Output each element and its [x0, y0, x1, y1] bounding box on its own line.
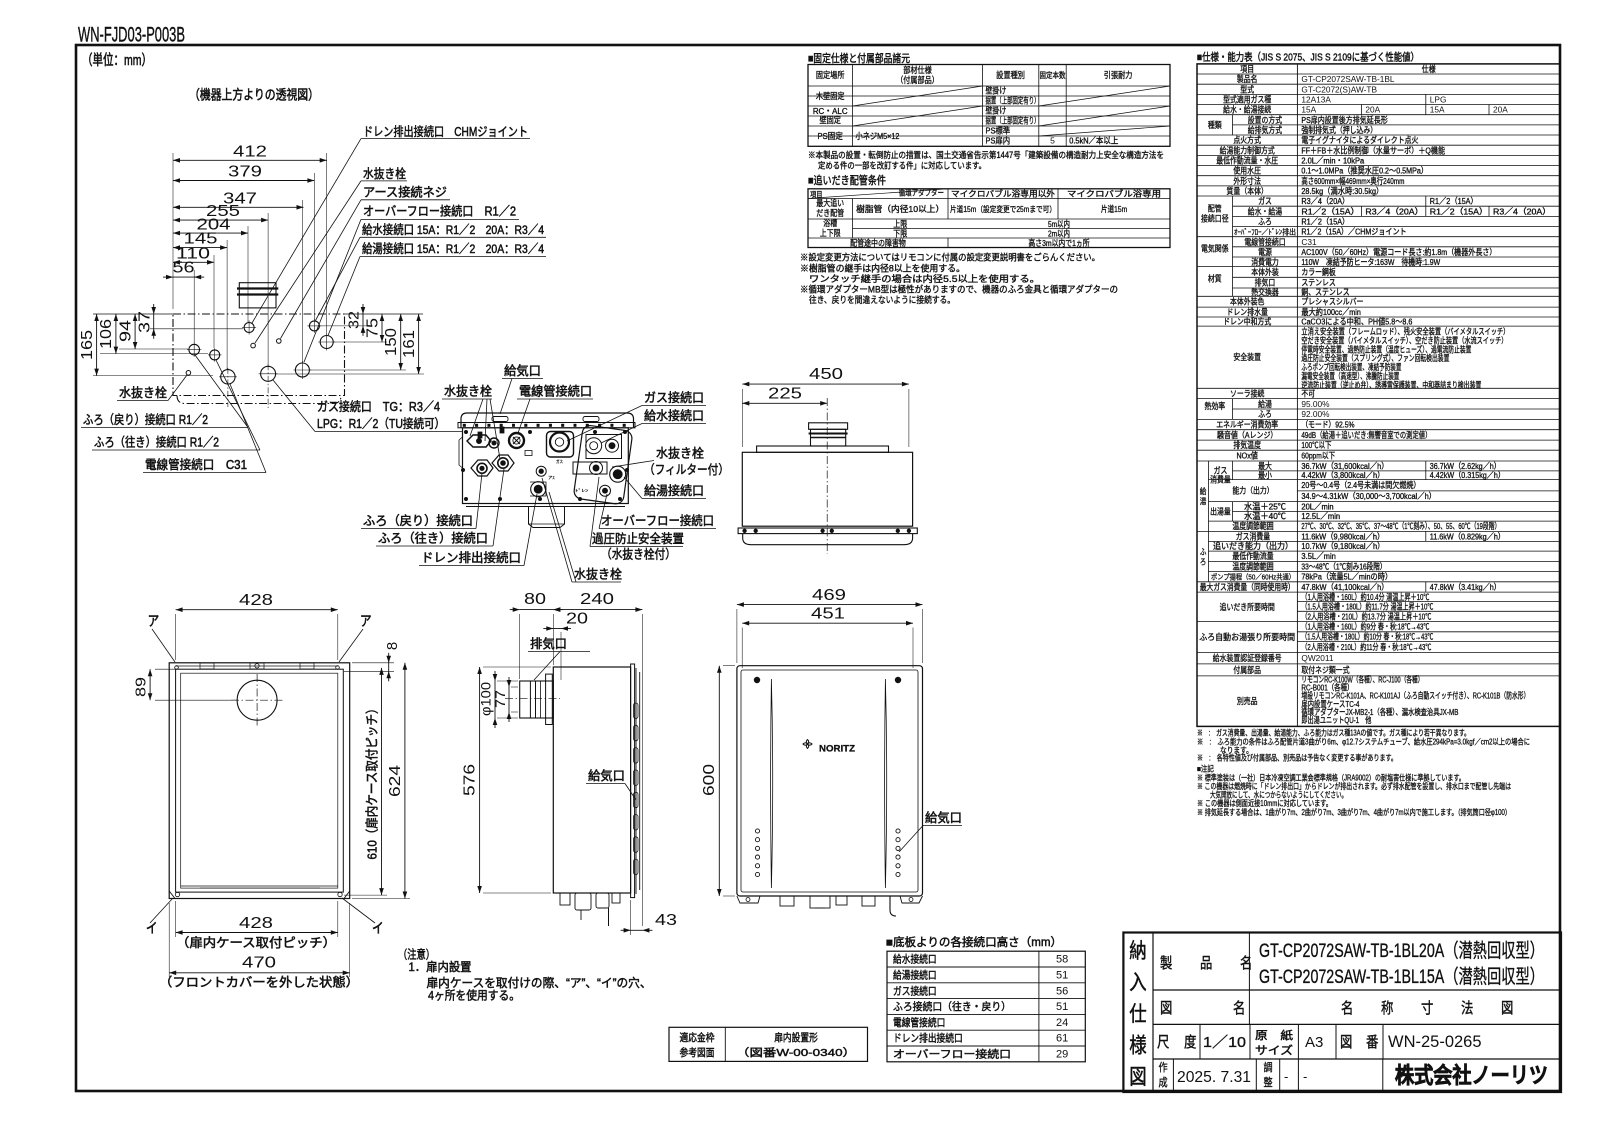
svg-text:11.6kW（9,980kcal／h）: 11.6kW（9,980kcal／h） [1301, 531, 1384, 541]
svg-text:ろ: ろ [1200, 558, 1207, 567]
svg-text:高さ3m以内で1ヵ所: 高さ3m以内で1ヵ所 [1028, 238, 1090, 248]
svg-text:項目: 項目 [1240, 64, 1254, 74]
detail component: left valve pair (furo) [471, 460, 493, 476]
svg-text:納: 納 [1129, 940, 1146, 963]
svg-text:470: 470 [242, 955, 276, 972]
svg-text:428: 428 [239, 915, 273, 932]
svg-text:強制排気式（押し込み）: 強制排気式（押し込み） [1301, 125, 1377, 135]
svg-text:カラー鋼板: カラー鋼板 [1301, 267, 1336, 277]
450 view body [742, 452, 912, 526]
svg-text:循環アダプター: 循環アダプター [899, 188, 944, 198]
svg-text:428: 428 [239, 592, 273, 609]
svg-text:94: 94 [118, 320, 135, 342]
svg-text:消費電力: 消費電力 [1251, 257, 1279, 267]
450 view band screws [743, 529, 747, 533]
svg-text:ふろ（往き）接続口 R1／2: ふろ（往き）接続口 R1／2 [94, 435, 219, 450]
svg-text:※ この機器は側面近接10mmに対応しています。: ※ この機器は側面近接10mmに対応しています。 [1197, 798, 1332, 808]
svg-text:使用水圧: 使用水圧 [1233, 166, 1261, 176]
svg-text:図: 図 [1501, 1000, 1513, 1017]
svg-text:称: 称 [1381, 1000, 1393, 1017]
svg-text:だき配管: だき配管 [816, 208, 844, 218]
svg-text:接続口径: 接続口径 [1201, 213, 1229, 223]
svg-text:15A: 15A [1430, 105, 1445, 115]
svg-text:R1／2（15A）／CHMジョイント: R1／2（15A）／CHMジョイント [1301, 227, 1406, 237]
svg-text:アｽ: アｽ [548, 475, 555, 480]
svg-text:電気関係: 電気関係 [1201, 244, 1229, 254]
svg-text:取付ネジ類一式: 取付ネジ類一式 [1301, 665, 1350, 675]
svg-text:12A13A: 12A13A [1301, 95, 1331, 105]
side view bottom fittings [560, 893, 570, 905]
svg-text:給: 給 [1200, 486, 1207, 496]
svg-text:往き、戻りを間違えないように接続する。: 往き、戻りを間違えないように接続する。 [809, 294, 955, 305]
svg-text:GT-C2072(S)AW-TB: GT-C2072(S)AW-TB [1301, 84, 1377, 94]
svg-text:（1人用浴槽・160L）約9分 春・秋:18℃→43℃: （1人用浴槽・160L）約9分 春・秋:18℃→43℃ [1301, 622, 1429, 632]
svg-text:ガス接続口: ガス接続口 [893, 984, 937, 997]
detail view bottom flange [463, 503, 629, 505]
svg-text:AC100V（50／60Hz）電源コード長さ:約1.8m（機: AC100V（50／60Hz）電源コード長さ:約1.8m（機器外長さ） [1301, 247, 1496, 257]
svg-text:配管途中の障害物: 配管途中の障害物 [850, 238, 906, 248]
oidaki header diagonal [808, 189, 948, 199]
svg-text:（モード）92.5%: （モード）92.5% [1301, 420, 1355, 430]
svg-text:ふ: ふ [1200, 548, 1207, 557]
detail component: filter drain plug [573, 462, 607, 474]
svg-text:（フィルター付）: （フィルター付） [644, 463, 729, 477]
svg-text:WN-FJD03-P003B: WN-FJD03-P003B [78, 24, 185, 47]
svg-text:株式会社ノーリツ: 株式会社ノーリツ [1395, 1063, 1548, 1088]
svg-text:騒音値（Aレンジ）: 騒音値（Aレンジ） [1217, 430, 1277, 440]
dim 56 [173, 276, 194, 278]
dim 347 [173, 206, 304, 208]
svg-text:電子イグナイタによるダイレクト点火: 電子イグナイタによるダイレクト点火 [1301, 135, 1418, 145]
svg-text:24: 24 [1056, 1017, 1068, 1029]
svg-text:2.0L／min・10kPa: 2.0L／min・10kPa [1301, 155, 1364, 165]
dim 204 [173, 232, 248, 234]
svg-text:ガス: ガス [556, 458, 563, 465]
top dim extension verticals [326, 153, 328, 336]
svg-text:11.6kW（0.829kg／h）: 11.6kW（0.829kg／h） [1430, 531, 1505, 541]
svg-text:-: - [1284, 1069, 1288, 1084]
svg-text:43: 43 [655, 912, 677, 929]
svg-text:電源: 電源 [1258, 247, 1272, 257]
svg-text:給湯接続口 15A：R1／2 20A：R3／4: 給湯接続口 15A：R1／2 20A：R3／4 [362, 241, 544, 256]
case inner rect [176, 669, 344, 892]
svg-text:225: 225 [768, 386, 802, 403]
svg-text:20号～0.4号（2.4号未満は間欠燃焼）: 20号～0.4号（2.4号未満は間欠燃焼） [1301, 480, 1420, 490]
svg-text:給気口: 給気口 [925, 810, 962, 825]
svg-text:仕様: 仕様 [1422, 64, 1436, 74]
case bottom inner lines [181, 885, 338, 887]
svg-text:624: 624 [387, 765, 404, 797]
svg-text:木壁固定: 木壁固定 [816, 90, 845, 101]
svg-text:寸: 寸 [1421, 1000, 1433, 1017]
svg-text:469: 469 [812, 587, 846, 604]
dim 470 bottom [169, 972, 350, 974]
svg-text:配管: 配管 [1208, 203, 1222, 213]
svg-text:本体外装色: 本体外装色 [1230, 297, 1264, 307]
svg-text:片道15m（設定変更で25mまで可）: 片道15m（設定変更で25mまで可） [950, 204, 1056, 214]
case outer rect [169, 663, 350, 899]
side view pipe center line [505, 697, 560, 699]
svg-text:100℃以下: 100℃以下 [1301, 440, 1331, 450]
svg-text:ふろ（戻り）接続口 R1／2: ふろ（戻り）接続口 R1／2 [83, 412, 208, 427]
svg-text:調: 調 [1263, 1060, 1272, 1074]
svg-text:NORITZ: NORITZ [819, 744, 855, 755]
svg-text:47.8kW（41,100kcal／h）: 47.8kW（41,100kcal／h） [1301, 582, 1388, 592]
svg-text:据置（上部固定有り）: 据置（上部固定有り） [986, 116, 1040, 126]
svg-text:度: 度 [1184, 1034, 1196, 1051]
top view circle: hot water (412/75) [320, 336, 333, 349]
top view circle: conduit C31 (145) [221, 370, 235, 384]
svg-text:■固定仕様と付属部品諸元: ■固定仕様と付属部品諸元 [808, 51, 910, 65]
svg-text:ドレン排水量: ドレン排水量 [1227, 307, 1268, 317]
svg-text:ドレン排出接続口: ドレン排出接続口 [421, 550, 521, 565]
top view left extension line [93, 313, 173, 315]
svg-text:451: 451 [811, 606, 845, 623]
svg-text:ﾄﾞﾚﾝ: ﾄﾞﾚﾝ [575, 488, 588, 493]
top view small drain plug left [186, 371, 191, 376]
dim 379 [173, 180, 314, 182]
detail component: gas connection square [547, 432, 574, 458]
detail component: upper small drain fittings [467, 435, 491, 447]
detail component: water supply group [586, 435, 622, 459]
svg-text:最低作動流量: 最低作動流量 [1232, 551, 1273, 561]
svg-text:5: 5 [1050, 136, 1055, 146]
svg-text:610（扉内ケース取付ピッチ）: 610（扉内ケース取付ピッチ） [365, 703, 380, 860]
svg-text:水抜き栓: 水抜き栓 [363, 166, 406, 181]
svg-text:アース接続ネジ: アース接続ネジ [363, 185, 447, 200]
product name cell [1248, 933, 1250, 1025]
svg-text:1．扉内設置: 1．扉内設置 [409, 959, 472, 974]
dim phi100 [494, 681, 496, 718]
svg-text:給湯: 給湯 [1258, 399, 1272, 409]
svg-text:（1.5人用浴槽・180L）約10分 春・秋:18℃→43℃: （1.5人用浴槽・180L）約10分 春・秋:18℃→43℃ [1301, 632, 1433, 642]
svg-text:最小: 最小 [1258, 470, 1272, 480]
svg-text:小ネジM5×12: 小ネジM5×12 [856, 131, 900, 141]
svg-text:浴槽: 浴槽 [823, 218, 837, 228]
detail view lid band [458, 423, 635, 428]
svg-text:水抜き栓: 水抜き栓 [444, 384, 492, 399]
detail component: conduit connector [509, 433, 524, 448]
svg-text:壁固定: 壁固定 [820, 114, 842, 125]
svg-text:（フロントカバーを外した状態）: （フロントカバーを外した状態） [159, 975, 359, 990]
svg-text:水温＋25℃: 水温＋25℃ [1244, 502, 1286, 512]
svg-text:追いだき能力（出力）: 追いだき能力（出力） [1213, 541, 1293, 551]
front view left hole column [755, 829, 759, 833]
svg-text:60ppm以下: 60ppm以下 [1301, 451, 1335, 461]
svg-text:GT-CP2072SAW-TB-1BL: GT-CP2072SAW-TB-1BL [1301, 74, 1395, 84]
svg-text:消費量: 消費量 [1210, 474, 1231, 484]
svg-text:LPG：R1／2（TU接続可）: LPG：R1／2（TU接続可） [317, 416, 445, 431]
svg-text:エネルギー消費効率: エネルギー消費効率 [1216, 420, 1278, 430]
side view pipe flange [546, 674, 553, 724]
svg-text:51: 51 [1056, 1001, 1068, 1013]
svg-text:0.1～1.0MPa（推奨水圧0.2～0.5MPa）: 0.1～1.0MPa（推奨水圧0.2～0.5MPa） [1301, 166, 1428, 176]
front view right hole column [896, 829, 900, 833]
svg-text:C31: C31 [1301, 237, 1317, 247]
dim 110 [173, 261, 214, 263]
svg-text:3.5L／min: 3.5L／min [1301, 551, 1336, 561]
front view right panel slit [885, 679, 887, 888]
svg-text:379: 379 [228, 164, 262, 181]
svg-text:※本製品の設置・転倒防止の措置は、国土交通省告示第1447号: ※本製品の設置・転倒防止の措置は、国土交通省告示第1447号「建築設備の構造耐力… [808, 149, 1164, 160]
svg-text:製: 製 [1160, 955, 1172, 972]
svg-text:R3／4（20A）: R3／4（20A） [1301, 196, 1349, 206]
case top tabs [176, 665, 338, 667]
svg-text:R1／2（15A）: R1／2（15A） [1430, 206, 1488, 216]
svg-text:給水接続口: 給水接続口 [644, 408, 704, 423]
svg-text:※ 排気延長する場合は、1曲がり7m、2曲がり7m、3曲がり: ※ 排気延長する場合は、1曲がり7m、2曲がり7m、3曲がり7m、4曲がり7m以… [1197, 807, 1511, 817]
side view body [553, 667, 630, 893]
dim 428 top [176, 609, 338, 611]
svg-text:R3／4（20A）: R3／4（20A） [1365, 206, 1423, 216]
svg-text:※設定変更方法についてはリモコンに付属の設定変更説明書をごら: ※設定変更方法についてはリモコンに付属の設定変更説明書をごらんください。 [800, 252, 1100, 263]
svg-text:※循環アダプターMB型は極性がありますので、機器のふろ金具と: ※循環アダプターMB型は極性がありますので、機器のふろ金具と循環アダプターの [800, 284, 1118, 295]
svg-text:高さ600mm×幅469mm×奥行240mm: 高さ600mm×幅469mm×奥行240mm [1301, 176, 1404, 186]
svg-text:整: 整 [1263, 1075, 1272, 1089]
svg-text:600: 600 [701, 764, 718, 796]
svg-text:水抜き栓: 水抜き栓 [119, 385, 167, 400]
svg-text:即出湯ユニットQU-1 他: 即出湯ユニットQU-1 他 [1301, 715, 1371, 725]
svg-text:R3／4（20A）: R3／4（20A） [1493, 206, 1551, 216]
svg-text:樹脂管（内径10以上）: 樹脂管（内径10以上） [856, 204, 944, 214]
svg-text:φ100: φ100 [479, 682, 494, 716]
top view circle: overflow (347/150) [295, 363, 309, 377]
svg-text:上下限: 上下限 [820, 228, 841, 238]
svg-text:92.00%: 92.00% [1301, 409, 1330, 419]
title block row lines [1153, 989, 1561, 991]
svg-text:給水装置認証登録番号: 給水装置認証登録番号 [1213, 653, 1282, 663]
dim 37 left [153, 314, 155, 329]
svg-text:A3: A3 [1305, 1034, 1323, 1051]
top view body outline (dash-dot) [173, 314, 345, 396]
svg-text:12.5L／min: 12.5L／min [1301, 511, 1340, 521]
svg-text:ドレン排出接続口: ドレン排出接続口 [893, 1032, 963, 1045]
top view small earth screw [277, 339, 282, 344]
svg-text:銅、ステンレス: 銅、ステンレス [1301, 287, 1349, 297]
dim 451 [742, 622, 913, 624]
450 view bottom tray [743, 534, 913, 545]
svg-text:本体外装: 本体外装 [1251, 267, 1279, 277]
svg-text:過圧防止安全装置: 過圧防止安全装置 [592, 531, 684, 546]
dim 150 right [400, 314, 402, 370]
svg-text:熱効率: 熱効率 [1204, 401, 1225, 411]
svg-text:追いだき所要時間: 追いだき所要時間 [1220, 602, 1275, 612]
svg-text:FF＋FB＋水比例制御（水量サーボ）＋Q機能: FF＋FB＋水比例制御（水量サーボ）＋Q機能 [1301, 145, 1445, 155]
svg-text:能力（出力）: 能力（出力） [1232, 486, 1273, 496]
svg-text:名: 名 [1233, 1000, 1245, 1017]
dim 145 [173, 247, 227, 249]
svg-text:型式適用ガス種: 型式適用ガス種 [1223, 95, 1271, 105]
svg-text:ア: ア [148, 613, 160, 629]
svg-text:給排気方式: 給排気方式 [1248, 125, 1283, 135]
svg-text:水温＋40℃: 水温＋40℃ [1244, 511, 1286, 521]
svg-text:扉内設置形: 扉内設置形 [774, 1031, 818, 1044]
svg-text:161: 161 [401, 330, 418, 358]
svg-text:ソーラ接続: ソーラ接続 [1230, 389, 1265, 399]
svg-text:質量（本体）: 質量（本体） [1227, 186, 1268, 196]
svg-text:8: 8 [384, 642, 401, 650]
dim 89 left [149, 669, 151, 700]
svg-text:49dB（給湯＋追いだき:無響音室での測定値）: 49dB（給湯＋追いだき:無響音室での測定値） [1301, 430, 1431, 440]
svg-text:GT-CP2072SAW-TB-1BL20A（潜熱回収型）: GT-CP2072SAW-TB-1BL20A（潜熱回収型） [1259, 940, 1544, 962]
svg-text:77: 77 [493, 690, 508, 708]
svg-text:固定場所: 固定場所 [816, 69, 845, 80]
svg-text:製品名: 製品名 [1237, 74, 1258, 84]
svg-text:設置の方式: 設置の方式 [1248, 115, 1283, 125]
svg-text:165: 165 [79, 330, 96, 360]
svg-text:-: - [1303, 1069, 1307, 1084]
detail component: drain outlet connection [531, 482, 546, 497]
dim 43 [631, 929, 643, 931]
svg-text:2m以内: 2m以内 [1048, 229, 1070, 239]
front view top screws [754, 677, 760, 683]
svg-text:WN-25-0265: WN-25-0265 [1388, 1033, 1482, 1051]
top view exhaust duct [239, 283, 276, 308]
svg-text:温度調節範囲: 温度調節範囲 [1232, 521, 1273, 531]
svg-text:20A: 20A [1365, 105, 1380, 115]
front view inner panel [741, 670, 918, 892]
oidaki table borders [808, 189, 1170, 248]
svg-text:最大ガス消費量（同時使用時）: 最大ガス消費量（同時使用時） [1200, 582, 1295, 592]
svg-text:0.5kN／本以上: 0.5kN／本以上 [1069, 135, 1118, 146]
svg-text:熱交換器: 熱交換器 [1251, 287, 1279, 297]
svg-text:4.42kW（0.315kg／h）: 4.42kW（0.315kg／h） [1430, 470, 1505, 480]
svg-text:定める件の一部を改訂する件」に対応しています。: 定める件の一部を改訂する件」に対応しています。 [818, 160, 986, 171]
svg-text:品: 品 [1200, 955, 1212, 972]
svg-text:別売品: 別売品 [1237, 696, 1258, 706]
svg-text:89: 89 [133, 677, 150, 697]
svg-text:最低作動流量・水圧: 最低作動流量・水圧 [1216, 155, 1278, 165]
svg-text:※ : ガス消費量、出湯量、給湯能力、ふろ能力はガス種13A: ※ : ガス消費量、出湯量、給湯能力、ふろ能力はガス種13Aの値です。ガス種によ… [1197, 727, 1470, 737]
dim 600 [718, 666, 720, 896]
svg-text:576: 576 [462, 764, 479, 796]
svg-text:29: 29 [1056, 1049, 1068, 1061]
svg-text:安全装置: 安全装置 [1233, 352, 1261, 362]
svg-text:外形寸法: 外形寸法 [1233, 176, 1261, 186]
top view circle: gas (255/161) [261, 366, 276, 381]
svg-text:15A: 15A [1301, 105, 1316, 115]
spec table column lines [1296, 64, 1298, 727]
svg-text:給気口: 給気口 [504, 363, 541, 378]
svg-text:（図番W-00-0340）: （図番W-00-0340） [736, 1047, 856, 1059]
svg-text:ガス: ガス [1258, 196, 1272, 206]
svg-text:出湯量: 出湯量 [1210, 506, 1231, 516]
detail view lid band screws [463, 424, 466, 427]
svg-text:部材仕様: 部材仕様 [903, 64, 932, 75]
svg-text:設置種別: 設置種別 [996, 69, 1025, 80]
svg-text:20A: 20A [1493, 105, 1508, 115]
svg-text:※ : 各特性値及び付属部品、別売品は予告なく変更する事があ: ※ : 各特性値及び付属部品、別売品は予告なく変更する事があります。 [1197, 752, 1397, 762]
svg-text:オーバーフロー接続口: オーバーフロー接続口 [601, 513, 714, 528]
dim 255 [173, 219, 268, 221]
top view circle: drain CHM (204/37) [244, 323, 254, 333]
svg-text:電線管接続口: 電線管接続口 [519, 384, 592, 399]
front view bottom feet [737, 896, 760, 903]
fixing table diagonal slash cells [853, 86, 983, 106]
svg-text:排気口: 排気口 [530, 636, 567, 651]
side view intake slits [634, 703, 639, 719]
side view back plate [631, 664, 635, 898]
svg-text:法: 法 [1461, 1000, 1473, 1017]
svg-text:412: 412 [233, 144, 267, 161]
svg-text:最大追い: 最大追い [816, 198, 844, 208]
svg-text:不可: 不可 [1301, 389, 1315, 399]
svg-text:■底板よりの各接続口高さ（mm）: ■底板よりの各接続口高さ（mm） [886, 935, 1062, 949]
detail component: overflow connection [600, 485, 611, 496]
spec table row lines [1197, 73, 1560, 75]
top view circle: furo return (56/94) [189, 344, 200, 355]
svg-text:58: 58 [1056, 954, 1068, 966]
scale row [1199, 1024, 1201, 1059]
svg-text:片道15m: 片道15m [1101, 204, 1127, 214]
svg-text:番: 番 [1366, 1034, 1378, 1051]
svg-text:4.42kW（3,800kcal／h）: 4.42kW（3,800kcal／h） [1301, 470, 1384, 480]
svg-text:（水抜き栓付）: （水抜き栓付） [601, 547, 676, 562]
svg-text:（扉内ケース取付ピッチ）: （扉内ケース取付ピッチ） [176, 936, 336, 950]
dim 94 left [134, 314, 136, 349]
svg-text:給水・給湯: 給水・給湯 [1248, 206, 1282, 216]
svg-text:図: 図 [1340, 1034, 1352, 1051]
svg-text:参考図面: 参考図面 [680, 1046, 715, 1059]
svg-text:最大約100cc／min: 最大約100cc／min [1301, 307, 1361, 317]
svg-text:27℃、30℃、32℃、35℃、37～48℃（1℃刻み）、5: 27℃、30℃、32℃、35℃、37～48℃（1℃刻み）、50、55、60℃（1… [1301, 521, 1500, 531]
svg-text:オーバーフロー接続口 R1／2: オーバーフロー接続口 R1／2 [363, 204, 516, 219]
svg-text:壁掛け: 壁掛け [986, 106, 1007, 116]
dim 161 right [418, 314, 420, 374]
top view circle: water supply (379/32) [309, 321, 319, 331]
dim 576 [479, 667, 481, 893]
svg-text:給気口: 給気口 [588, 768, 625, 783]
svg-text:図: 図 [1129, 1066, 1146, 1089]
svg-text:入: 入 [1129, 972, 1146, 995]
svg-text:電線管接続口 C31: 電線管接続口 C31 [145, 457, 247, 472]
svg-text:95.00%: 95.00% [1301, 399, 1330, 409]
svg-text:■追いだき配管条件: ■追いだき配管条件 [808, 173, 886, 187]
svg-text:（単位：mm）: （単位：mm） [82, 52, 152, 69]
dim 77 [508, 687, 510, 712]
title block outer [1123, 933, 1561, 1093]
dim 80 [520, 609, 554, 611]
top view bottom flange [177, 396, 341, 404]
right dim reference lines [320, 325, 368, 327]
svg-text:オーバーフロー接続口: オーバーフロー接続口 [893, 1048, 1011, 1061]
svg-text:作: 作 [1158, 1061, 1167, 1074]
svg-text:61: 61 [1056, 1033, 1068, 1045]
svg-text:R1／2（15A）: R1／2（15A） [1301, 206, 1359, 216]
svg-text:図: 図 [1160, 1000, 1172, 1017]
detail component: hot water connection [610, 466, 626, 482]
side view exhaust pipe [520, 681, 554, 718]
svg-text:110W 凍結予防ヒータ:163W 待機時:1.9W: 110W 凍結予防ヒータ:163W 待機時:1.9W [1301, 257, 1440, 267]
svg-text:QW2011: QW2011 [1301, 653, 1334, 663]
svg-text:PS扉内: PS扉内 [986, 136, 1011, 146]
dim 165 left [96, 314, 98, 376]
svg-text:4ヶ所を使用する。: 4ヶ所を使用する。 [428, 988, 520, 1003]
svg-text:PS固定: PS固定 [818, 130, 844, 141]
svg-text:給水接続口 15A：R1／2 20A：R3／4: 給水接続口 15A：R1／2 20A：R3／4 [362, 222, 544, 237]
svg-text:47.8kW（3.41kg／h）: 47.8kW（3.41kg／h） [1430, 582, 1501, 592]
svg-text:240: 240 [580, 591, 614, 608]
svg-text:※ 標準塗装は（一社）日本冷凍空調工業会標準規格（JRA90: ※ 標準塗装は（一社）日本冷凍空調工業会標準規格（JRA9002）の耐塩害仕様に… [1197, 772, 1465, 782]
svg-text:37: 37 [137, 311, 154, 333]
detail component: center drain plug [536, 466, 546, 476]
svg-text:450: 450 [809, 366, 843, 383]
svg-text:壁掛け: 壁掛け [986, 86, 1007, 96]
svg-text:（1.5人用浴槽・180L）約11.7分 湯温上昇＋10℃: （1.5人用浴槽・180L）約11.7分 湯温上昇＋10℃ [1301, 602, 1433, 612]
svg-text:引張耐力: 引張耐力 [1104, 69, 1133, 80]
case bottom corner feet [169, 891, 183, 899]
svg-text:様: 様 [1129, 1035, 1146, 1058]
